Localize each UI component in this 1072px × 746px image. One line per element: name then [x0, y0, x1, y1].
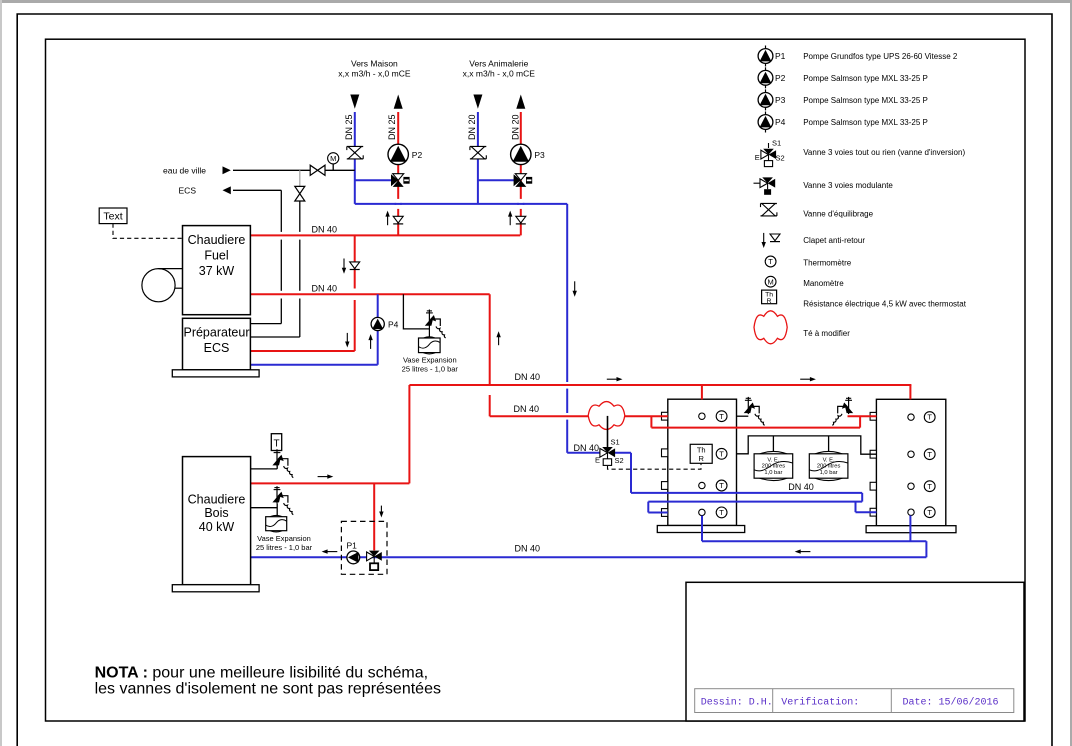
wire VE hanger 1 — [772, 436, 774, 452]
svg-text:les vannes d'isolement ne sont: les vannes d'isolement ne sont pas repré… — [95, 680, 441, 697]
svg-text:25 litres - 1,0 bar: 25 litres - 1,0 bar — [402, 365, 459, 374]
window edge shading left — [0, 0, 2, 746]
wire blue branch to P3 valve — [478, 179, 514, 181]
wire ECS line — [233, 189, 281, 191]
ECS arrow — [223, 186, 231, 194]
wire blue drop to tank1 tab — [647, 502, 649, 513]
arrow down vers maison retour — [350, 95, 359, 109]
svg-text:DN 40: DN 40 — [515, 372, 541, 382]
wire blue header retour — [355, 203, 567, 205]
cloud stub to S1 valve — [607, 416, 609, 448]
wire dashed control line S2 to ThR — [608, 463, 702, 469]
svg-text:DN 20: DN 20 — [467, 114, 477, 140]
svg-text:S1: S1 — [611, 437, 620, 446]
storage tank 1 — [668, 399, 737, 525]
wire blue branch to P2 valve — [355, 179, 392, 181]
wire cold feed into preparateur — [250, 336, 299, 338]
wire red ECS primary supply — [250, 350, 354, 352]
svg-text:x,x m3/h - x,0 mCE: x,x m3/h - x,0 mCE — [338, 69, 411, 79]
wire red riser P2 (DN25 Vers Maison depart) — [397, 112, 399, 235]
preparateur ECS box — [183, 318, 251, 370]
svg-text:Chaudiere: Chaudiere — [188, 492, 246, 506]
svg-text:S1: S1 — [772, 139, 781, 148]
safety valve tank2 (mirrored) — [832, 397, 853, 425]
tank2 thermometer row4 — [924, 507, 935, 518]
crossing hop P3 riser over blue header — [517, 199, 524, 209]
svg-text:P1: P1 — [347, 541, 358, 551]
eau de ville arrow — [223, 166, 231, 174]
title block cartouche strip — [695, 689, 1014, 713]
svg-text:R: R — [767, 298, 772, 305]
3-way mixing valve P1 — [367, 551, 382, 570]
svg-text:P1: P1 — [775, 51, 786, 61]
dashed P1 subassembly box — [341, 521, 387, 574]
svg-text:DN 40: DN 40 — [514, 404, 540, 414]
wire vase expansion bois drop — [276, 504, 278, 517]
clapet P3 riser — [516, 216, 526, 224]
svg-text:DN 40: DN 40 — [788, 482, 814, 492]
svg-text:P2: P2 — [412, 150, 423, 160]
wire manometer stub — [332, 164, 334, 170]
wire cold feed below valve — [299, 201, 301, 232]
svg-text:P4: P4 — [775, 117, 786, 127]
svg-text:R: R — [698, 454, 704, 463]
safety valve bois 2 — [272, 486, 293, 514]
tank1 side tabs — [662, 412, 668, 420]
wire red drop into tank2 top — [909, 385, 911, 399]
arrow up vers maison depart — [394, 95, 403, 109]
VE 200l vessel 2 — [809, 451, 848, 480]
svg-text:Bois: Bois — [204, 506, 228, 520]
svg-text:Vase Expansion: Vase Expansion — [257, 534, 311, 543]
clapet bypass — [350, 262, 360, 270]
svg-text:Pompe Salmson type MXL 33-25 P: Pompe Salmson type MXL 33-25 P — [803, 96, 928, 105]
clapet P2 riser — [393, 216, 403, 224]
tank2 row4 circle — [908, 509, 914, 515]
tank1 thermometer row4 — [716, 507, 727, 518]
svg-text:Date: 15/06/2016: Date: 15/06/2016 — [903, 697, 999, 709]
svg-text:Pompe Grundfos type UPS 26-60: Pompe Grundfos type UPS 26-60 Vitesse 2 — [803, 52, 958, 61]
wire vase expansion P4 branch — [403, 294, 429, 329]
wire blue return riser right end — [925, 541, 927, 557]
legend pump P3 — [758, 89, 773, 110]
svg-text:Té à modifier: Té à modifier — [803, 329, 850, 338]
tank1 base — [657, 526, 744, 533]
tank2 thermometer row3 — [924, 481, 935, 492]
wire blue riser DN25 Vers Maison retour — [354, 112, 356, 204]
Te a modifier cloud on tank feed — [588, 402, 625, 430]
pump P2 — [388, 144, 408, 164]
svg-text:Vanne 3 voies tout ou rien (va: Vanne 3 voies tout ou rien (vanne d'inve… — [803, 148, 965, 157]
wire red drop into tank1 top — [701, 385, 703, 399]
flow arrow up at P3 clapet — [509, 214, 511, 226]
manometer M — [328, 153, 339, 164]
tank1 top row circle — [699, 413, 705, 419]
wire blue riser DN20 Vers Animalerie retour — [477, 112, 479, 204]
svg-text:Chaudiere: Chaudiere — [188, 233, 246, 247]
safety valve group at vase P4 — [425, 310, 446, 338]
wire red DN40 header 1 (Chaudiere Fuel supply) — [250, 234, 520, 236]
Text annotation box — [99, 208, 127, 224]
wire blue ECS primary return — [250, 364, 377, 366]
wire blue U-turn down — [861, 493, 863, 502]
3-way valve P3 — [514, 174, 533, 187]
wire blue tank2 bottom drop — [909, 515, 911, 541]
wire red Chaudiere Bois supply horizontal — [251, 482, 410, 484]
svg-text:x,x m3/h - x,0 mCE: x,x m3/h - x,0 mCE — [463, 69, 536, 79]
wire blue branch drop to tank2 tab — [855, 502, 857, 513]
tank2 row3 circle — [908, 483, 914, 489]
wire chaudiere bois safety stub 2 — [251, 507, 278, 509]
tank1 thermometer row3 — [716, 480, 727, 491]
tank2 thermometer row2 — [924, 449, 935, 460]
tank2 row2 circle — [908, 451, 914, 457]
valve on cold feed (vertical) — [295, 186, 305, 201]
svg-text:DN 40: DN 40 — [312, 224, 338, 234]
svg-text:M: M — [330, 154, 336, 163]
wire blue tank bottoms run — [702, 540, 926, 542]
wire red into tank2 side tab — [848, 415, 877, 417]
tank2 base — [866, 526, 956, 533]
flow arrow up beside P4 — [370, 337, 372, 349]
safety valve tank1 — [744, 397, 765, 425]
tank1 thermometer row1 — [716, 411, 727, 422]
wire red tank2 feed horizontal — [651, 427, 860, 429]
svg-text:Résistance électrique 4,5 kW a: Résistance électrique 4,5 kW avec thermo… — [803, 299, 967, 308]
wire VE header between tanks — [737, 436, 877, 454]
svg-text:M: M — [767, 277, 773, 286]
legend 3-way valve tout ou rien — [755, 139, 785, 167]
svg-text:Préparateur: Préparateur — [183, 326, 249, 340]
wire blue upper run to tanks — [631, 492, 862, 494]
flow arrow down below header2 — [346, 333, 348, 344]
wire blue P4 riser — [377, 294, 379, 365]
vase expansion bois — [256, 515, 313, 552]
svg-text:ECS: ECS — [179, 186, 197, 196]
svg-text:Vase Expansion: Vase Expansion — [403, 355, 457, 364]
svg-text:37 kW: 37 kW — [199, 264, 235, 278]
svg-text:E: E — [755, 153, 760, 162]
wire blue drop after S2 — [630, 453, 632, 493]
svg-text:Vanne 3 voies modulante: Vanne 3 voies modulante — [803, 181, 893, 190]
svg-text:P2: P2 — [775, 73, 786, 83]
svg-text:40 kW: 40 kW — [199, 520, 235, 534]
wire red branch down to tank2 feed — [650, 416, 652, 427]
pump P1 — [347, 541, 360, 564]
legend vanne equilibrage — [761, 204, 777, 216]
wire red drop from header2 to main supply — [489, 294, 491, 385]
wire eau de ville line — [233, 169, 355, 171]
wire chaudiere bois safety stub 1 — [251, 468, 278, 470]
svg-text:Text: Text — [103, 211, 122, 223]
wire eau de ville tee (gray) — [299, 170, 301, 186]
wire red tank2 feed jog up — [859, 416, 861, 427]
legend pump P4 — [758, 112, 773, 133]
wire blue main DN40 return — [251, 556, 927, 558]
wire blue into S1 valve — [567, 452, 601, 454]
tank1 ThR resistance box — [690, 444, 712, 463]
svg-text:Dessin: D.H.: Dessin: D.H. — [701, 697, 773, 709]
flow arrow left on main return (left) — [325, 551, 337, 553]
wire red bypass with clapet between headers — [354, 235, 356, 288]
tank1 row4 circle — [699, 509, 705, 515]
flow arrow up on main supply riser — [498, 334, 500, 345]
svg-text:Vanne d'équilibrage: Vanne d'équilibrage — [803, 210, 873, 219]
legend pump P1 — [758, 46, 773, 67]
wire ECS drop to preparateur — [280, 190, 282, 232]
wire blue long drop DN40 to S1 valve — [566, 204, 568, 382]
wire ECS into preparateur — [250, 323, 281, 325]
arrow down vers animalerie retour — [473, 95, 482, 109]
wire blue lower run back — [648, 501, 862, 503]
tank1 row3 circle — [699, 482, 705, 488]
svg-text:P3: P3 — [534, 150, 545, 160]
window edge shading top — [0, 0, 1072, 3]
svg-text:Verification:: Verification: — [781, 697, 859, 709]
wire red DN40 supply to storage tanks (via Te) — [490, 415, 668, 417]
svg-text:Clapet anti-retour: Clapet anti-retour — [803, 236, 865, 245]
legend 3-way valve modulante — [754, 177, 776, 194]
thermometer box on bois safety line — [271, 434, 281, 451]
svg-text:eau de ville: eau de ville — [163, 166, 206, 176]
wire blue tank1 bottom drop — [701, 516, 703, 542]
svg-text:NOTA : pour une meilleure lisi: NOTA : pour une meilleure lisibilité du … — [95, 665, 428, 682]
chaudiere bois boiler box — [183, 457, 251, 585]
svg-text:P3: P3 — [775, 95, 786, 105]
legend thermometre — [765, 256, 776, 267]
chaudiere fuel boiler box — [183, 226, 251, 315]
wire tank1 safety stub — [737, 415, 749, 417]
wire dashed control line from Text box — [113, 224, 183, 239]
svg-text:Vers Animalerie: Vers Animalerie — [469, 59, 528, 69]
3-way valve P2 — [391, 174, 410, 187]
flow arrow right on main header (left) — [607, 378, 619, 380]
crossing hop P2 riser over blue header — [395, 199, 402, 209]
legend resistance electrique ThR — [762, 290, 777, 305]
tank2 thermometer row1 — [924, 412, 935, 423]
svg-text:E: E — [595, 455, 600, 464]
isolation valve on eau de ville — [310, 165, 325, 175]
tank2 row1 circle — [908, 414, 914, 420]
window edge shading right — [1070, 0, 1072, 746]
svg-text:DN 25: DN 25 — [387, 114, 397, 140]
wire red drop to P1 mixing valve — [373, 483, 375, 550]
tank1 thermometer row2 — [716, 448, 727, 459]
wire red DN40 header 2 (Chaudiere Fuel return) — [250, 293, 489, 295]
svg-text:25 litres - 1,0 bar: 25 litres - 1,0 bar — [256, 543, 313, 552]
wire blue S2 out — [614, 452, 631, 454]
flow arrow down to P1 valve — [380, 506, 382, 515]
svg-text:DN 25: DN 25 — [344, 114, 354, 140]
flow arrow down at bypass — [343, 259, 345, 271]
boiler bois base pedestal — [172, 585, 259, 592]
svg-text:Pompe Salmson type MXL 33-25 P: Pompe Salmson type MXL 33-25 P — [803, 74, 928, 83]
tank2 side tabs — [870, 412, 876, 420]
wire red riser Chaudiere Bois — [408, 385, 410, 483]
vanne equilibrage animalerie — [470, 147, 486, 159]
boiler fuel base pedestal — [172, 370, 259, 377]
wire red riser P3 (DN20 Vers Animalerie depart) — [520, 112, 522, 235]
pump P4 — [371, 317, 399, 330]
svg-text:ECS: ECS — [204, 341, 230, 355]
flow arrow right on bois supply — [318, 476, 330, 478]
svg-text:T: T — [273, 439, 279, 450]
arrow up vers animalerie depart — [516, 95, 525, 109]
safety valve bois 1 — [272, 449, 293, 477]
svg-text:Pompe Salmson type MXL 33-25 P: Pompe Salmson type MXL 33-25 P — [803, 118, 928, 127]
svg-text:DN 40: DN 40 — [312, 283, 338, 293]
svg-text:DN 40: DN 40 — [574, 443, 600, 453]
storage tank 2 — [876, 399, 945, 525]
title block — [686, 582, 1024, 721]
flow arrow down on long blue drop — [574, 281, 576, 293]
svg-text:DN 40: DN 40 — [515, 544, 541, 554]
3-way valve S1/S2 (inversion) — [595, 437, 624, 465]
vanne equilibrage maison — [347, 147, 363, 159]
legend Te a modifier cloud — [754, 311, 787, 344]
pump P3 — [511, 144, 531, 164]
legend clapet anti-retour — [762, 233, 781, 248]
wire red main DN40 header to tanks — [409, 384, 911, 386]
svg-text:Fuel: Fuel — [204, 248, 228, 262]
vase expansion P4 — [402, 337, 459, 374]
flow arrow left on main return (right) — [798, 551, 810, 553]
svg-text:DN 20: DN 20 — [510, 114, 520, 140]
wire blue into tank1 bottom tab — [648, 512, 668, 514]
svg-text:Thermomètre: Thermomètre — [803, 258, 852, 267]
burner symbol — [142, 269, 183, 302]
flow arrow up at P2 clapet — [387, 214, 389, 226]
flow arrow right on main header (right) — [800, 378, 812, 380]
legend manometre — [765, 276, 776, 287]
svg-text:Manomètre: Manomètre — [803, 279, 844, 288]
wire VE hanger 2 — [828, 436, 830, 452]
wire blue into tank2 bottom tab — [856, 511, 877, 513]
legend pump P2 — [758, 67, 773, 88]
svg-text:S2: S2 — [776, 154, 785, 163]
svg-text:P4: P4 — [388, 319, 399, 329]
VE 200l vessel 1 — [754, 451, 793, 480]
svg-text:Vers Maison: Vers Maison — [351, 59, 398, 69]
svg-text:S2: S2 — [615, 456, 624, 465]
